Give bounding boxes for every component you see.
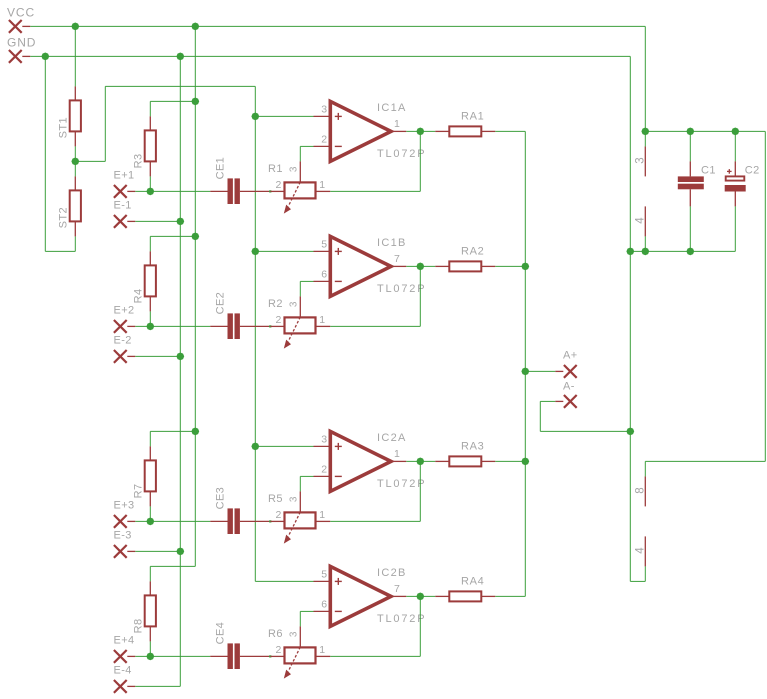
wire A- down xyxy=(539,401,541,431)
wire E+2 to R2 input cap xyxy=(135,325,210,327)
pin stub E+1 xyxy=(127,190,135,192)
svg-text:5: 5 xyxy=(321,568,327,580)
svg-text:CE1: CE1 xyxy=(215,157,227,180)
svg-text:CE4: CE4 xyxy=(215,622,227,645)
wire IC2A output to RA3 xyxy=(406,460,435,462)
supply pin 4 of IC2 power xyxy=(644,536,646,566)
wire A bus vertical xyxy=(524,131,526,596)
junction gnd rail / E-3 xyxy=(176,548,184,556)
junction vcc rail / R7 top xyxy=(191,428,199,436)
svg-text:VCC: VCC xyxy=(7,6,35,20)
svg-text:2: 2 xyxy=(321,463,327,475)
pin A- (X mark) xyxy=(564,395,577,408)
wire RA4 to A bus xyxy=(495,595,525,597)
wire down to R8 xyxy=(149,566,151,581)
wire down to R7 xyxy=(149,431,151,446)
wire IC1B output to RA2 xyxy=(406,265,435,267)
svg-text:TL072P: TL072P xyxy=(377,478,426,490)
pin GND (X mark) xyxy=(9,50,22,63)
svg-text:E+1: E+1 xyxy=(114,169,135,181)
junction output of IC2B xyxy=(416,593,424,601)
wire bias bus to +in of IC1A xyxy=(255,115,313,117)
capacitor CE4 xyxy=(210,643,270,669)
capacitor CE2 xyxy=(210,313,270,339)
pin E+1 (X mark) xyxy=(114,185,127,198)
wire up to ST2 bottom xyxy=(74,236,76,251)
capacitor C2 (polarized) xyxy=(725,131,746,206)
wire IC1A output to RA1 xyxy=(406,130,435,132)
wire R7 top to VCC rail xyxy=(150,430,195,432)
svg-text:3: 3 xyxy=(321,433,327,445)
junction C1 / bottom supply wire xyxy=(686,248,694,256)
supply pin 8 of IC2 power xyxy=(644,476,646,506)
op-amp IC1A xyxy=(314,101,407,161)
pin E-4 (X mark) xyxy=(114,680,127,693)
wire R7 bottom to E+ node xyxy=(149,506,151,521)
potentiometer R5 xyxy=(270,491,330,543)
resistor R8 xyxy=(132,581,156,641)
wire bias bus to +in of IC1B xyxy=(255,250,313,252)
svg-text:1: 1 xyxy=(319,509,325,521)
junction vcc rail / R4 top xyxy=(191,233,199,241)
wire IC2B output to RA4 xyxy=(406,595,435,597)
svg-text:1: 1 xyxy=(319,179,325,191)
wire GND horizontal rail xyxy=(30,55,630,57)
junction A bus / A+ xyxy=(521,368,529,376)
svg-text:E-4: E-4 xyxy=(114,664,132,676)
resistor R7 xyxy=(132,446,156,506)
wire R8 top to VCC rail xyxy=(150,565,195,567)
junction E node / R7 xyxy=(146,518,154,526)
wire R3 top to VCC rail xyxy=(150,100,195,102)
svg-text:7: 7 xyxy=(394,253,400,265)
svg-text:E+2: E+2 xyxy=(114,304,135,316)
supply pin 4 of IC1 power xyxy=(644,206,646,236)
svg-text:C1: C1 xyxy=(701,164,716,176)
junction E node / R8 xyxy=(146,653,154,661)
wire feedback to R6 pin 1 xyxy=(330,655,420,657)
wire wiper to -in of IC1A xyxy=(300,145,313,147)
wire V+ to IC2 pin 8 xyxy=(645,460,765,462)
wire E+4 to R6 input cap xyxy=(135,655,210,657)
wire feedback down of IC1A xyxy=(419,131,421,191)
wire R3 bottom to E+ node xyxy=(149,176,151,191)
resistor RA4 xyxy=(435,591,495,601)
potentiometer R6 xyxy=(270,626,330,678)
svg-text:ST1: ST1 xyxy=(57,117,69,138)
svg-text:3: 3 xyxy=(288,496,299,502)
junction V+ / C2 xyxy=(731,128,739,136)
svg-text:RA1: RA1 xyxy=(461,111,485,123)
svg-text:IC1B: IC1B xyxy=(377,237,407,249)
pin E+3 (X mark) xyxy=(114,515,127,528)
svg-text:R8: R8 xyxy=(132,619,144,634)
wire E-3 to GND rail xyxy=(135,550,180,552)
wire V+ into pin 3 xyxy=(644,131,646,146)
svg-text:TL072P: TL072P xyxy=(377,283,426,295)
junction VCC / vcc rail B xyxy=(191,23,199,31)
wire bias bus to +in of IC2B xyxy=(255,580,313,582)
wire midpoint to bias column xyxy=(75,160,105,162)
svg-text:RA4: RA4 xyxy=(461,576,485,588)
wire V+ into pin 8 xyxy=(644,461,646,476)
svg-text:5: 5 xyxy=(321,238,327,250)
wire E-2 to GND rail xyxy=(135,355,180,357)
svg-text:IC2B: IC2B xyxy=(377,567,407,579)
svg-text:C2: C2 xyxy=(745,164,760,176)
svg-text:CE3: CE3 xyxy=(215,487,227,510)
wire feedback down of IC2B xyxy=(419,596,421,656)
wire down to R4 xyxy=(149,236,151,251)
wire E-1 to GND rail xyxy=(135,220,180,222)
wire R2 wiper up xyxy=(299,281,301,296)
svg-text:3: 3 xyxy=(288,301,299,307)
wire R8 bottom to E+ node xyxy=(149,641,151,656)
wire C2 bottom xyxy=(734,206,736,251)
wire GND bottom supply xyxy=(630,250,735,252)
svg-text:1: 1 xyxy=(319,644,325,656)
wire bottom of divider xyxy=(45,250,75,252)
svg-text:R1: R1 xyxy=(268,163,283,175)
svg-text:E+3: E+3 xyxy=(114,499,135,511)
svg-text:6: 6 xyxy=(321,268,327,280)
svg-text:8: 8 xyxy=(634,487,646,494)
svg-text:1: 1 xyxy=(319,314,325,326)
potentiometer R1 xyxy=(270,161,330,213)
wire bias column up xyxy=(104,86,106,161)
wire wiper to -in of IC1B xyxy=(300,280,313,282)
pin stub E+2 xyxy=(127,325,135,327)
pin E-2 (X mark) xyxy=(114,350,127,363)
wire ST1-ST2 midpoint xyxy=(74,146,76,176)
wire feedback down of IC1B xyxy=(419,266,421,326)
svg-text:A-: A- xyxy=(563,380,575,392)
junction A bus / RA2 xyxy=(521,263,529,271)
pin stub A- xyxy=(555,400,563,402)
wire gnd rail B down xyxy=(179,56,181,686)
capacitor CE1 xyxy=(210,178,270,204)
svg-text:1: 1 xyxy=(394,448,400,460)
svg-text:2: 2 xyxy=(276,509,282,521)
svg-text:E-2: E-2 xyxy=(114,334,132,346)
svg-text:R2: R2 xyxy=(268,298,283,310)
resistor R3 xyxy=(132,116,156,176)
resistor RA1 xyxy=(435,126,495,136)
pin E+4 (X mark) xyxy=(114,650,127,663)
junction gnd rail / E-1 xyxy=(176,218,184,226)
resistor RA3 xyxy=(435,456,495,466)
svg-text:2: 2 xyxy=(276,644,282,656)
op-amp IC2B xyxy=(314,566,407,626)
svg-text:A+: A+ xyxy=(563,350,578,362)
svg-text:GND: GND xyxy=(7,36,36,50)
svg-text:3: 3 xyxy=(634,157,646,164)
wire V+ distribution top xyxy=(645,130,765,132)
svg-text:3: 3 xyxy=(288,631,299,637)
svg-text:4: 4 xyxy=(634,547,646,554)
junction GND rail / A- xyxy=(626,428,634,436)
node cap/R6 connection xyxy=(269,655,271,657)
svg-text:2: 2 xyxy=(276,314,282,326)
supply pin 3 of IC1 power xyxy=(644,146,646,176)
pin E+2 (X mark) xyxy=(114,320,127,333)
wire E+3 to R5 input cap xyxy=(135,520,210,522)
junction V+ / C1 xyxy=(686,128,694,136)
wire VCC to ST1 xyxy=(74,26,76,86)
wire A+ to bus xyxy=(525,370,555,372)
wire VCC horizontal rail xyxy=(30,25,645,27)
junction E node / R4 xyxy=(146,323,154,331)
wire feedback to R5 pin 1 xyxy=(330,520,420,522)
svg-text:E-1: E-1 xyxy=(114,199,132,211)
wire GND down right side xyxy=(629,56,631,581)
svg-text:E-3: E-3 xyxy=(114,529,132,541)
svg-text:IC1A: IC1A xyxy=(377,102,407,114)
node cap/R1 connection xyxy=(269,190,271,192)
svg-text:R7: R7 xyxy=(132,484,144,499)
pin stub E-1 xyxy=(127,220,135,222)
junction VCC corner / top supply wire xyxy=(641,128,649,136)
pin stub E-3 xyxy=(127,550,135,552)
svg-text:E+4: E+4 xyxy=(114,634,135,646)
wire GND rail to IC2 pin 4 xyxy=(630,580,645,582)
pin stub GND xyxy=(22,55,30,57)
junction VCC / ST1 column xyxy=(71,23,79,31)
svg-text:R3: R3 xyxy=(132,154,144,169)
pin E-1 (X mark) xyxy=(114,215,127,228)
wire bias bus down xyxy=(254,86,256,581)
svg-text:2: 2 xyxy=(321,133,327,145)
wire R5 wiper up xyxy=(299,476,301,491)
svg-text:TL072P: TL072P xyxy=(377,613,426,625)
wire down to R3 xyxy=(149,101,151,116)
pin stub E+3 xyxy=(127,520,135,522)
wire RA2 to A bus xyxy=(495,265,525,267)
wire R1 wiper up xyxy=(299,146,301,161)
resistor RA2 xyxy=(435,261,495,271)
junction bias bus / IC1A +in xyxy=(251,113,259,121)
svg-text:R5: R5 xyxy=(268,493,283,505)
wire RA1 to A bus xyxy=(495,130,525,132)
junction E node / R3 xyxy=(146,188,154,196)
wire R4 bottom to E+ node xyxy=(149,311,151,326)
svg-text:RA2: RA2 xyxy=(461,246,485,258)
op-amp IC2A xyxy=(314,431,407,491)
pin stub E-2 xyxy=(127,355,135,357)
junction output of IC2A xyxy=(416,458,424,466)
wire E+1 to R1 input cap xyxy=(135,190,210,192)
resistor ST1 xyxy=(57,86,81,146)
junction GND / gnd rail B xyxy=(176,53,184,61)
svg-text:3: 3 xyxy=(321,103,327,115)
junction divider midpoint xyxy=(71,158,79,166)
op-amp IC1B xyxy=(314,236,407,296)
wire bias top horizontal xyxy=(105,85,255,87)
wire V+ right edge down xyxy=(764,131,766,461)
svg-text:RA3: RA3 xyxy=(461,441,485,453)
pin VCC (X mark) xyxy=(9,20,22,33)
svg-text:7: 7 xyxy=(394,583,400,595)
pin stub A+ xyxy=(555,370,563,372)
pin stub E-4 xyxy=(127,685,135,687)
wire A- to GND rail xyxy=(540,430,630,432)
wire C1 bottom xyxy=(689,206,691,251)
junction GND / left rail xyxy=(41,53,49,61)
wire wiper to -in of IC2A xyxy=(300,475,313,477)
wire feedback to R1 pin 1 xyxy=(330,190,420,192)
pin A+ (X mark) xyxy=(564,365,577,378)
wire pin 4 to GND wire xyxy=(644,236,646,251)
wire R4 top to VCC rail xyxy=(150,235,195,237)
svg-text:2: 2 xyxy=(276,179,282,191)
pin E-3 (X mark) xyxy=(114,545,127,558)
junction output of IC1A xyxy=(416,128,424,136)
junction A bus / RA3 xyxy=(521,458,529,466)
wire vcc rail B down xyxy=(194,26,196,566)
svg-text:CE2: CE2 xyxy=(215,292,227,315)
capacitor C1 xyxy=(678,131,704,206)
svg-text:4: 4 xyxy=(634,217,646,224)
wire wiper to -in of IC2B xyxy=(300,610,313,612)
svg-text:R4: R4 xyxy=(132,289,144,304)
svg-text:3: 3 xyxy=(288,166,299,172)
wire RA3 to A bus xyxy=(495,460,525,462)
wire feedback down of IC2A xyxy=(419,461,421,521)
node cap/R5 connection xyxy=(269,520,271,522)
junction vcc rail / R3 top xyxy=(191,98,199,106)
junction pin4 / bottom supply wire xyxy=(641,248,649,256)
svg-text:1: 1 xyxy=(394,118,400,130)
pin stub VCC xyxy=(22,25,30,27)
resistor ST2 xyxy=(57,176,81,236)
wire A- left xyxy=(540,400,555,402)
wire R6 wiper up xyxy=(299,611,301,626)
svg-text:ST2: ST2 xyxy=(57,207,69,228)
wire bias bus to +in of IC2A xyxy=(255,445,313,447)
resistor R4 xyxy=(132,251,156,311)
potentiometer R2 xyxy=(270,296,330,348)
node cap/R2 connection xyxy=(269,325,271,327)
pin stub E+4 xyxy=(127,655,135,657)
capacitor CE3 xyxy=(210,508,270,534)
svg-text:6: 6 xyxy=(321,598,327,610)
svg-text:TL072P: TL072P xyxy=(377,148,426,160)
svg-text:R6: R6 xyxy=(268,628,283,640)
wire GND left rail down xyxy=(44,56,46,251)
junction bias bus / IC1B +in xyxy=(251,248,259,256)
svg-text:IC2A: IC2A xyxy=(377,432,407,444)
junction gnd rail / E-2 xyxy=(176,353,184,361)
wire pin 4 down xyxy=(644,566,646,581)
wire VCC down right side xyxy=(644,26,646,131)
junction GND rail / bottom supply wire xyxy=(626,248,634,256)
junction output of IC1B xyxy=(416,263,424,271)
wire feedback to R2 pin 1 xyxy=(330,325,420,327)
wire E-4 to GND rail xyxy=(135,685,180,687)
junction bias bus / IC2A +in xyxy=(251,443,259,451)
